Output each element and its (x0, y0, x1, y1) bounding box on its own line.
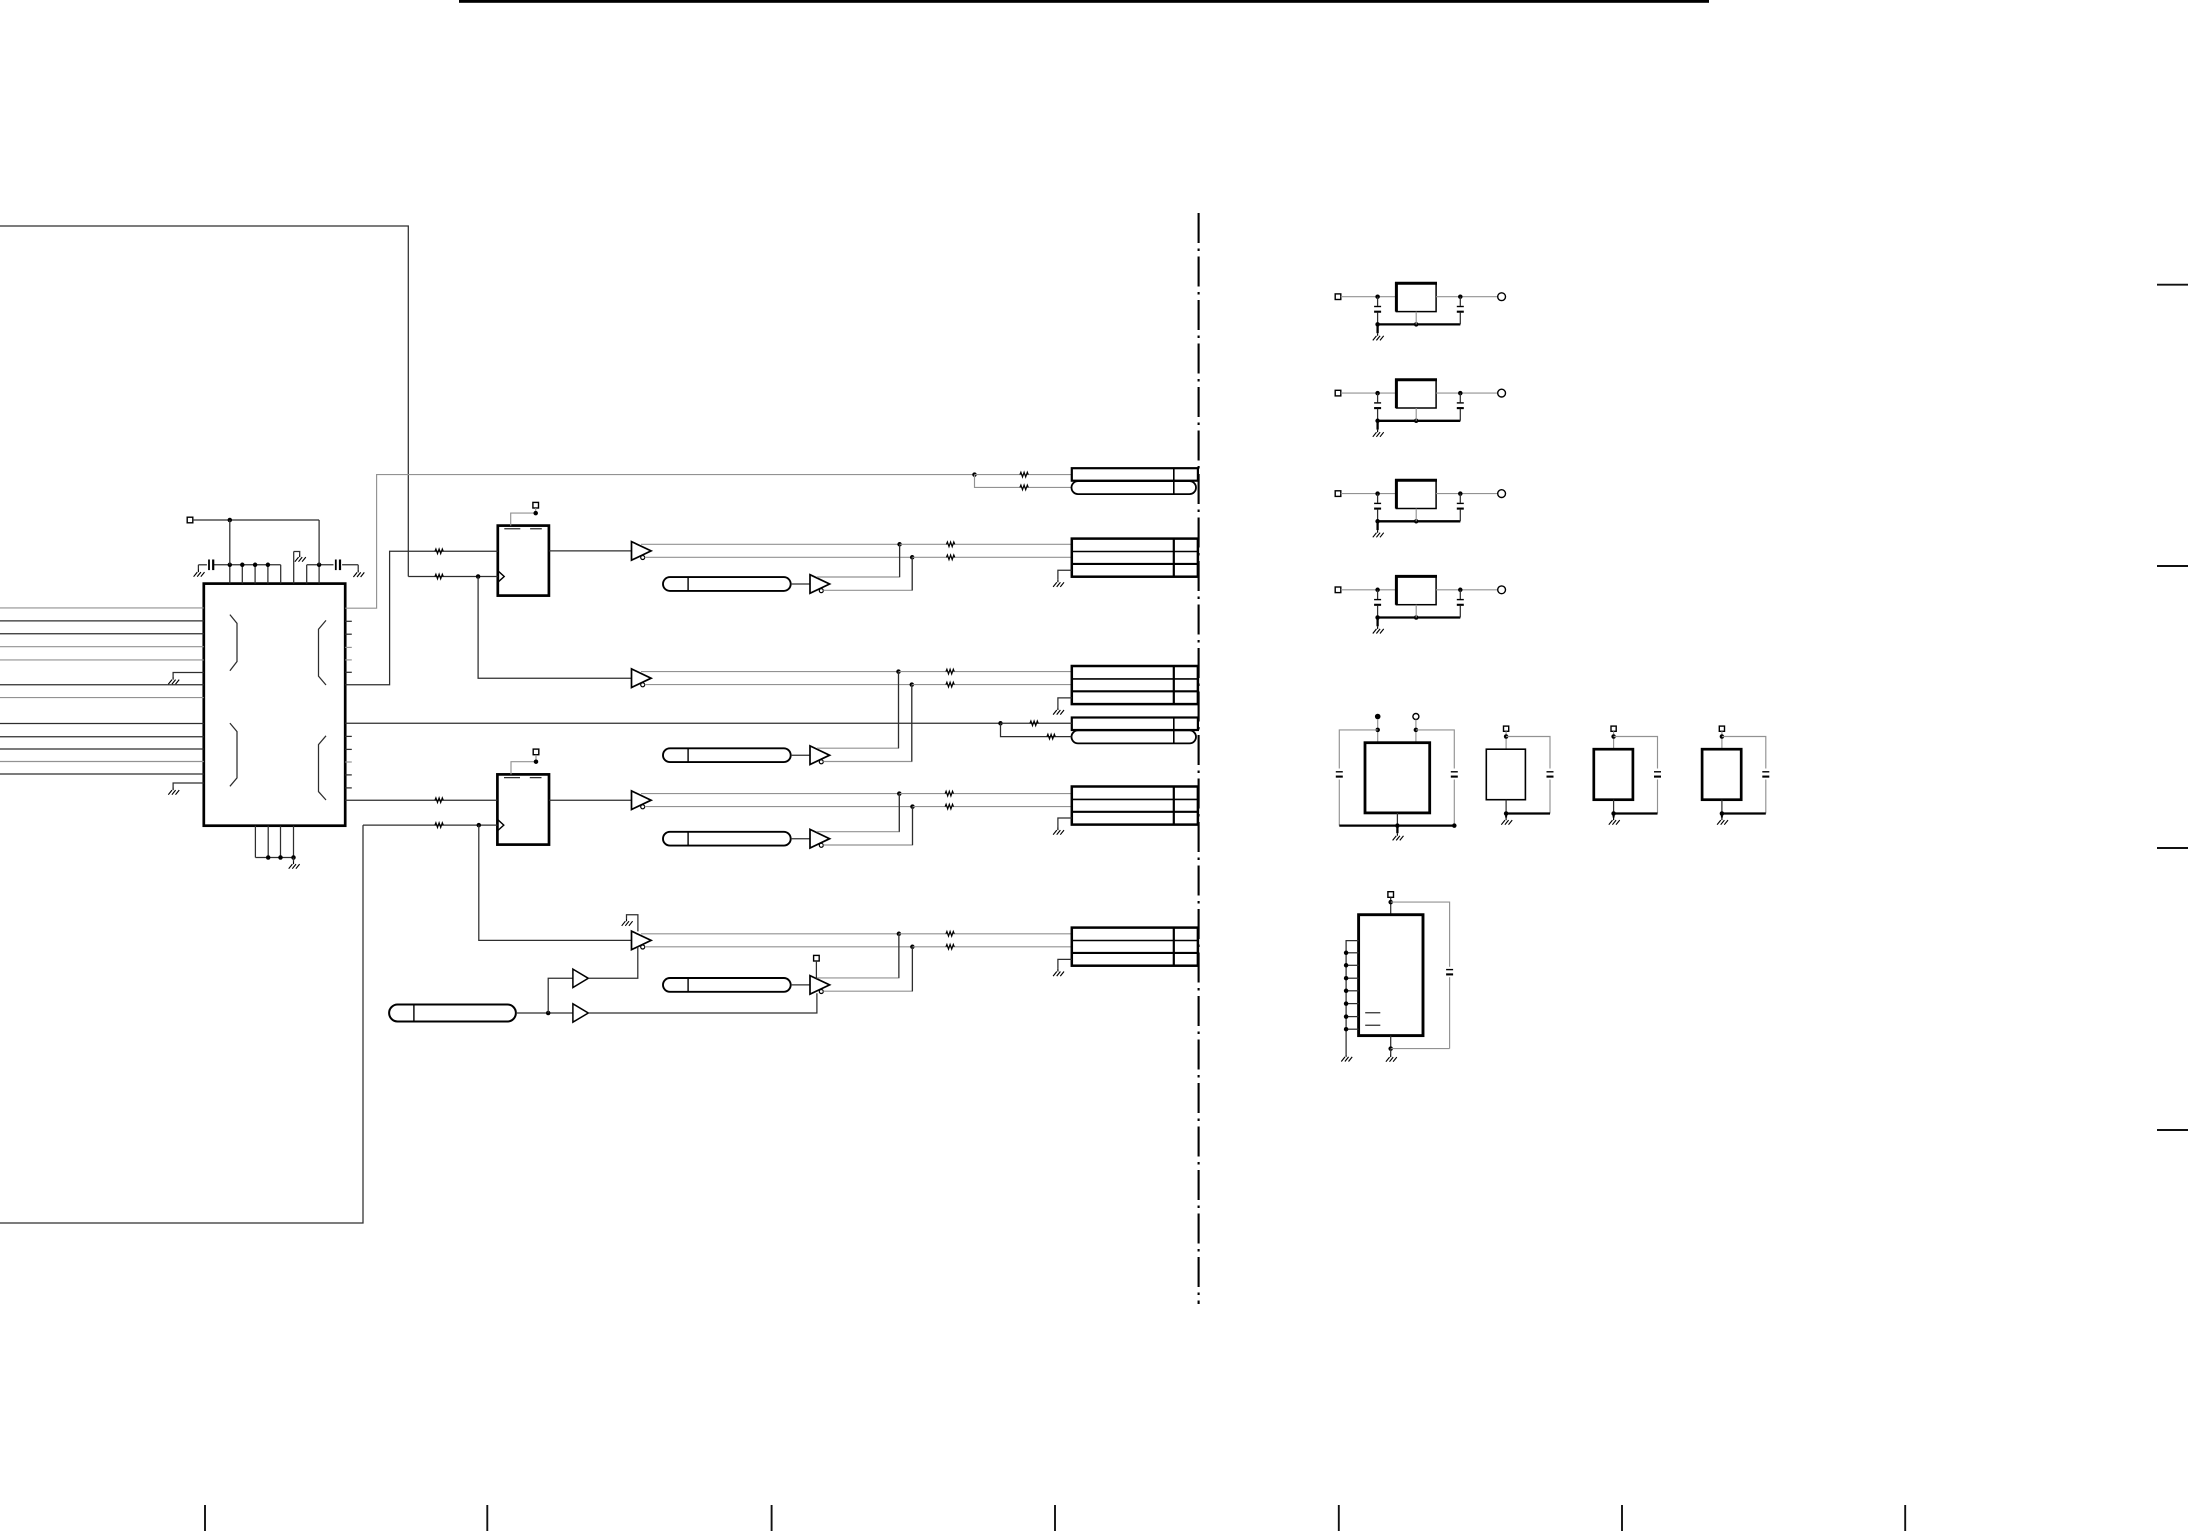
capacitor C1a (1377, 297, 1379, 306)
ground glyph U7 left (1341, 1054, 1352, 1061)
J-A row dividers (1072, 551, 1198, 553)
wire DL3 output (516, 1012, 573, 1014)
resonator X3 body (1594, 749, 1633, 800)
U7 left pin bus (1346, 941, 1359, 1055)
U7 internal marks (1365, 1013, 1380, 1025)
board boundary dash-dot line (1198, 213, 1200, 1304)
junction bottom rail (291, 855, 296, 860)
bus wire to U1 left pin 1 (0, 607, 204, 609)
wire C2 to ground (342, 564, 358, 566)
capacitor C4b (1459, 590, 1461, 599)
wire E line1 (641, 933, 899, 935)
FL1 center pin (1415, 312, 1417, 325)
output terminal circle FL2 (1498, 389, 1506, 397)
capacitor C13 branch (1614, 737, 1658, 769)
junction B line2 (910, 682, 915, 687)
buffer U6 (573, 1004, 588, 1022)
wire FF output to buffer A (549, 550, 632, 552)
wire DL out to buffer DB (791, 838, 810, 840)
input terminal square FL3 (1335, 491, 1341, 497)
power rail left above U1 (213, 564, 280, 566)
wire out FL3 (1436, 493, 1498, 495)
junction X3 rail (1611, 811, 1616, 816)
wire EB bubble to junction (823, 947, 912, 991)
J-E pin column divider (1173, 928, 1175, 966)
junction X2 rail (1504, 811, 1509, 816)
wire C11 to rail (1453, 780, 1455, 826)
capacitor C3a (1377, 494, 1379, 503)
U7 left pin y=952.8 (1346, 952, 1359, 954)
ground at C2 (353, 570, 364, 577)
wire CH0 upper into connector J1 (975, 474, 1072, 476)
connector J4 body row1 (1072, 718, 1198, 731)
junction D line2 (910, 804, 915, 809)
X1 ground rail (1339, 824, 1454, 826)
resistor R6 (1020, 485, 1028, 490)
wire A line1 (641, 543, 900, 545)
bus wire to U1 left pin 5 (0, 659, 204, 661)
U1 right pin stub y=762.0 (345, 761, 352, 763)
bottom ground rail (255, 857, 293, 859)
FL4 center pin (1415, 605, 1417, 618)
output terminal circle FL1 (1498, 293, 1506, 301)
wire in FL1 (1341, 296, 1397, 298)
terminal square X2 (1504, 726, 1509, 731)
wire DL out to buffer BB (791, 754, 810, 756)
U7 left pin y=990.8 (1346, 990, 1359, 992)
output terminal circle FL4 (1498, 586, 1506, 594)
FF1 power terminal square (533, 502, 539, 508)
ground glyph left lower (168, 788, 179, 795)
ground stub FL1 (1376, 324, 1378, 333)
bus wire to U1 left pin 4 (0, 646, 204, 648)
inverted output bubble DB (819, 843, 823, 847)
J-D pin column divider (1173, 787, 1175, 825)
X2 top wire (1505, 731, 1507, 749)
junction X1 right (1414, 728, 1419, 733)
resistor R8 (1047, 734, 1055, 739)
FF2 internal top marks (504, 777, 542, 779)
U1 top pin stubs (229, 565, 231, 584)
wire DB top corner to junction (817, 794, 899, 832)
ground stub at J-A (1058, 570, 1072, 580)
buffer BB (810, 746, 830, 765)
terminal circle X1 (1413, 714, 1419, 720)
filter block FL2 body (1396, 380, 1436, 408)
U1 right pin stub y=749.4 (345, 748, 352, 750)
U1 right pin stub y=659.9 (345, 659, 352, 661)
junction U7 left bus (1344, 963, 1349, 968)
wire U1 pin to J4 row1 (net CH3) (345, 722, 1000, 724)
connector J1 shielded row (stadium) (1072, 481, 1197, 494)
bus wire to U1 left pin 9 (0, 736, 204, 738)
U7 left pin y=965.3 (1346, 964, 1359, 966)
junction X3 (1611, 734, 1616, 739)
wire BUS2 to FF2 CLK (net CLK2) (363, 824, 497, 826)
wire C13 to rail (1657, 780, 1659, 814)
junction U7 left bus (1344, 951, 1349, 956)
wire in FL2 (1341, 392, 1397, 394)
wire out FL4 (1436, 589, 1498, 591)
flip-flop U2 (FF1) body (498, 526, 549, 596)
bus wire to U1 left pin 6 (0, 684, 204, 686)
ground stub at J-E (1058, 959, 1072, 969)
resistor R5 (1020, 472, 1028, 477)
net BUS2 from off-page block, bottom (0, 825, 363, 1223)
junction rail center (1414, 615, 1419, 620)
ground at buffer EA enable (627, 915, 638, 932)
vertical join A line2 (911, 557, 913, 590)
wire U7 gnd to C20 (1391, 1048, 1450, 1050)
frame tick bottom 7 (1904, 1505, 1906, 1531)
wire B line2 (645, 684, 912, 686)
U7 left pin y=978.2 (1346, 977, 1359, 979)
resonator X1 body (1365, 743, 1430, 813)
resistor D line2 (945, 804, 953, 809)
capacitor C3b (1459, 494, 1461, 503)
junction E line2 (910, 945, 915, 950)
wire U1 pin to channel-0 (net CH0) (345, 475, 974, 609)
bus wire to U1 left pin 10 (0, 748, 204, 750)
FF1 power wires (511, 508, 536, 526)
frame tick bottom 4 (1054, 1505, 1056, 1531)
wire C10 to rail (1338, 780, 1340, 826)
wire CH0 lower into connector J1 (975, 475, 1072, 488)
junction on left rail (240, 563, 245, 568)
terminal VDD square (187, 517, 193, 523)
ground glyph J-E (1053, 969, 1064, 976)
FF1 internal top marks (504, 528, 542, 530)
junction X4 (1720, 734, 1725, 739)
wire VDD down pin1 (229, 520, 231, 565)
delay line DL3 (389, 1005, 516, 1022)
delay line DL E (663, 978, 791, 992)
output terminal circle FL3 (1498, 490, 1506, 498)
ground glyph FL1 (1373, 333, 1384, 340)
wire in FL3 (1341, 493, 1397, 495)
ground at U1 bottom (289, 862, 300, 869)
ground glyph FL3 (1373, 530, 1384, 537)
junction on left rail (228, 563, 233, 568)
terminal square X4 (1719, 726, 1724, 731)
U1 bus bracket right-lower (319, 736, 327, 800)
junction bottom rail (278, 855, 283, 860)
capacitor C2a (1377, 393, 1379, 402)
wire D line2 (645, 806, 913, 808)
ground glyph J-D (1053, 828, 1064, 835)
resistor R7 (1030, 721, 1038, 726)
resistor A line2 (946, 555, 954, 560)
junction U7 left bus (1344, 1001, 1349, 1006)
ground glyph X2 (1501, 818, 1512, 825)
FL3 center pin (1415, 509, 1417, 522)
bus wire to U1 left pin 7 (0, 697, 204, 699)
inverted output bubble BA (641, 683, 645, 687)
buffer AB (810, 575, 830, 594)
capacitor C2 (335, 560, 337, 571)
vertical join D line1 (898, 794, 900, 832)
ground glyph X1 (1393, 833, 1404, 840)
X3 ground rail (1614, 812, 1658, 814)
FF2 power wires (511, 755, 536, 775)
wire U6 out joins buffer EB bubble (588, 993, 817, 1013)
junction FF1 power (533, 511, 538, 516)
junction FL1 in (1375, 294, 1380, 299)
frame tick right 3 (2157, 847, 2188, 849)
buffer BA (632, 669, 652, 688)
ground stub at J-B (1058, 698, 1072, 708)
bus wire to U1 left pin 8 (0, 723, 204, 725)
delay line DL A (663, 577, 791, 591)
U1 bus bracket left-upper (230, 615, 237, 671)
inverted output bubble BB (819, 760, 823, 764)
resonator X2 body (1486, 749, 1525, 800)
junction U7 gnd (1388, 1046, 1393, 1051)
J-D row dividers (1072, 798, 1198, 800)
bus wire to U1 left pin 11 (0, 761, 204, 763)
junction A line1 (897, 542, 902, 547)
wire AB top corner to junction (817, 544, 900, 577)
frame tick bottom 3 (771, 1505, 773, 1531)
wire DL out to buffer AB (791, 583, 810, 585)
resistor R4 (435, 823, 443, 828)
wire D line1 (641, 793, 899, 795)
junction rail left (1375, 322, 1380, 327)
wire square to buffer (815, 961, 817, 979)
X4 ground rail (1722, 812, 1766, 814)
ground glyph pin6 (295, 555, 306, 562)
U1 right pin stub y=787.9 (345, 787, 352, 789)
connector J1 body row1 (1072, 468, 1198, 481)
ground rail FL2 (1378, 420, 1461, 422)
wire DL out to buffer EB (791, 984, 810, 986)
wire U1 pin to FF2 D (net D2) (345, 799, 497, 801)
wire U1 pin to FF1 D (net D1) (345, 551, 498, 685)
vertical join B line1 (898, 672, 900, 749)
ground stub FL3 (1376, 521, 1378, 530)
wire B line1 (641, 671, 899, 673)
U1 bus bracket right-upper (319, 620, 327, 685)
bus wire to U1 left pin 2 (0, 620, 204, 622)
resistor R2 (435, 574, 443, 579)
X4 top wire (1721, 731, 1723, 749)
junction CH3 split (998, 721, 1003, 726)
junction X1 rail (1395, 823, 1400, 828)
inverted output bubble EA (641, 945, 645, 949)
ground glyph X4 (1717, 818, 1728, 825)
delay line DL B (663, 748, 791, 762)
X1 ground pin (1396, 813, 1398, 826)
junction U7 left bus (1344, 1014, 1349, 1019)
buffer AA (632, 542, 652, 561)
J4 pin column divider (1173, 718, 1175, 744)
vertical join E line2 (911, 947, 913, 991)
buffer U5 (573, 969, 588, 987)
wire AB bubble to junction (823, 557, 912, 590)
title underline bar (459, 0, 1709, 3)
junction DL3 out (546, 1011, 551, 1016)
frame tick bottom 6 (1621, 1505, 1623, 1531)
wire out FL2 (1436, 392, 1498, 394)
connector J-D body (1072, 787, 1198, 825)
J1 pin column divider (1173, 468, 1175, 494)
junction X1 left (1375, 728, 1380, 733)
U7 bottom ground pin (1390, 1036, 1392, 1049)
wire CLK2 down to channel E buffer (479, 825, 632, 940)
input terminal square FL4 (1335, 587, 1341, 593)
junction rail center (1414, 419, 1419, 424)
buffer DA (632, 791, 652, 810)
ground stub at U1 pin 6 (294, 552, 300, 555)
vertical join A line1 (899, 544, 901, 577)
FF2 clock wedge (497, 819, 503, 831)
resistor B line1 (946, 669, 954, 674)
resistor A line1 (946, 542, 954, 547)
ground glyph U7 (1386, 1055, 1397, 1062)
bus wire to U1 left pin 3 (0, 633, 204, 635)
U1 pin stub 7 (306, 565, 308, 584)
X3 ground pin (1613, 800, 1615, 814)
junction CLK2 split (477, 823, 482, 828)
connector J-A body (1072, 539, 1198, 577)
X2 ground rail (1506, 812, 1550, 814)
wire in FL4 (1341, 589, 1397, 591)
junction X2 (1504, 734, 1509, 739)
capacitor C1b (1459, 297, 1461, 306)
wire CH3 lower into J4 stadium row (1001, 723, 1072, 736)
X1 right terminal wire (1415, 720, 1417, 743)
vertical join E line1 (898, 934, 900, 978)
connector J-E body (1072, 928, 1198, 966)
ground glyph buffer enable (622, 919, 633, 926)
filter block FL1 body (1396, 283, 1436, 311)
ground stub FL2 (1376, 421, 1378, 430)
ground rail FL4 (1378, 616, 1461, 618)
U7 power terminal square (1388, 892, 1394, 898)
flip-flop U3 (FF2) body (497, 774, 549, 844)
J-A pin column divider (1173, 539, 1175, 577)
U1 pin stub 8 (318, 565, 320, 584)
wire out FL1 (1436, 296, 1498, 298)
wire C14 to rail (1765, 780, 1767, 814)
bus wire to U1 left pin 12 (0, 773, 204, 775)
inverted output bubble AA (641, 556, 645, 560)
vertical join D line2 (912, 807, 914, 845)
wire BB bubble to junction (823, 685, 912, 762)
frame tick bottom 1 (204, 1505, 206, 1531)
junction rail left (1375, 419, 1380, 424)
J-B pin column divider (1173, 666, 1175, 704)
junction U7 VCC (1388, 900, 1393, 905)
J-E row dividers (1072, 940, 1198, 942)
junction VDD/pin1 (228, 518, 233, 523)
wire C20 down (1449, 977, 1451, 1048)
junction A line2 (910, 555, 915, 560)
wire A line2 (645, 556, 913, 558)
FL2 center pin (1415, 408, 1417, 421)
capacitor C1 (208, 560, 210, 571)
buffer DB (810, 829, 830, 848)
vertical join B line2 (911, 685, 913, 762)
junction rail center (1414, 322, 1419, 327)
junction on left rail (253, 563, 258, 568)
J-B row dividers (1072, 678, 1198, 680)
IC U1 body (204, 584, 345, 826)
frame tick right 4 (2157, 1129, 2188, 1131)
ground glyph J-A (1053, 580, 1064, 587)
junction CLK1 split (476, 574, 481, 579)
inverted output bubble EB (819, 990, 823, 994)
terminal square X3 (1611, 726, 1616, 731)
inverted output bubble DA (641, 805, 645, 809)
U1 bottom pin stubs (254, 826, 256, 858)
net BUS1 from off-page block, top (0, 226, 408, 577)
wire rail to ground (293, 858, 295, 862)
junction D line1 (897, 791, 902, 796)
ground glyph FL4 (1373, 626, 1384, 633)
junction X4 rail (1720, 811, 1725, 816)
junction FL1 out (1458, 294, 1463, 299)
ground at C1 (194, 570, 205, 577)
junction FL2 in (1375, 391, 1380, 396)
resistor R1 (435, 549, 443, 554)
U1 right pin stub y=736.4 (345, 735, 352, 737)
ground glyph left upper (168, 677, 179, 684)
input terminal square FL2 (1335, 390, 1341, 396)
U1 bus bracket left-lower (230, 723, 237, 786)
U1 right pin stub y=647.4 (345, 646, 352, 648)
junction rail left (1375, 519, 1380, 524)
ground glyph X3 (1609, 818, 1620, 825)
U7 body (1359, 915, 1423, 1036)
U1 pin VCC stub (pin 6) (293, 552, 295, 584)
connector J4 shielded row (stadium) (1072, 730, 1197, 743)
junction FL3 out (1458, 491, 1463, 496)
ground rail FL3 (1378, 520, 1461, 522)
X2 ground pin (1505, 800, 1507, 814)
U1 right pin stub y=621.3 (345, 620, 352, 622)
ground glyph FL2 (1373, 430, 1384, 437)
junction CH0 split (972, 472, 977, 477)
capacitor C4a (1377, 590, 1379, 599)
capacitor C12 branch (1506, 737, 1550, 769)
capacitor C2b (1459, 393, 1461, 402)
junction rail left (1375, 615, 1380, 620)
frame tick bottom 5 (1338, 1505, 1340, 1531)
X1 left terminal wire (1377, 719, 1379, 743)
frame tick right 1 (2157, 284, 2188, 286)
wire U5 out joins channel E line2 (588, 947, 638, 979)
junction U7 left bus (1344, 989, 1349, 994)
junction pin8/VDD net (317, 563, 322, 568)
junction bottom rail (266, 855, 271, 860)
bypass capacitor C20 branch (1391, 902, 1450, 967)
junction U7 left bus (1344, 1027, 1349, 1032)
wire FF output to buffer D (549, 799, 632, 801)
input terminal square FL1 (1335, 294, 1341, 300)
junction FL2 out (1458, 391, 1463, 396)
U7 left pin y=1003.6 (1346, 1003, 1359, 1005)
junction FL4 in (1375, 588, 1380, 593)
resistor B line2 (946, 682, 954, 687)
capacitor C11 branch (1416, 730, 1454, 769)
resistor R3 (435, 798, 443, 803)
ground stub U1 left lower (173, 783, 204, 788)
X4 ground pin (1721, 800, 1723, 814)
U1 right pin stub y=634.2 (345, 633, 352, 635)
junction rail center (1414, 519, 1419, 524)
power rail right above U1 (307, 564, 334, 566)
